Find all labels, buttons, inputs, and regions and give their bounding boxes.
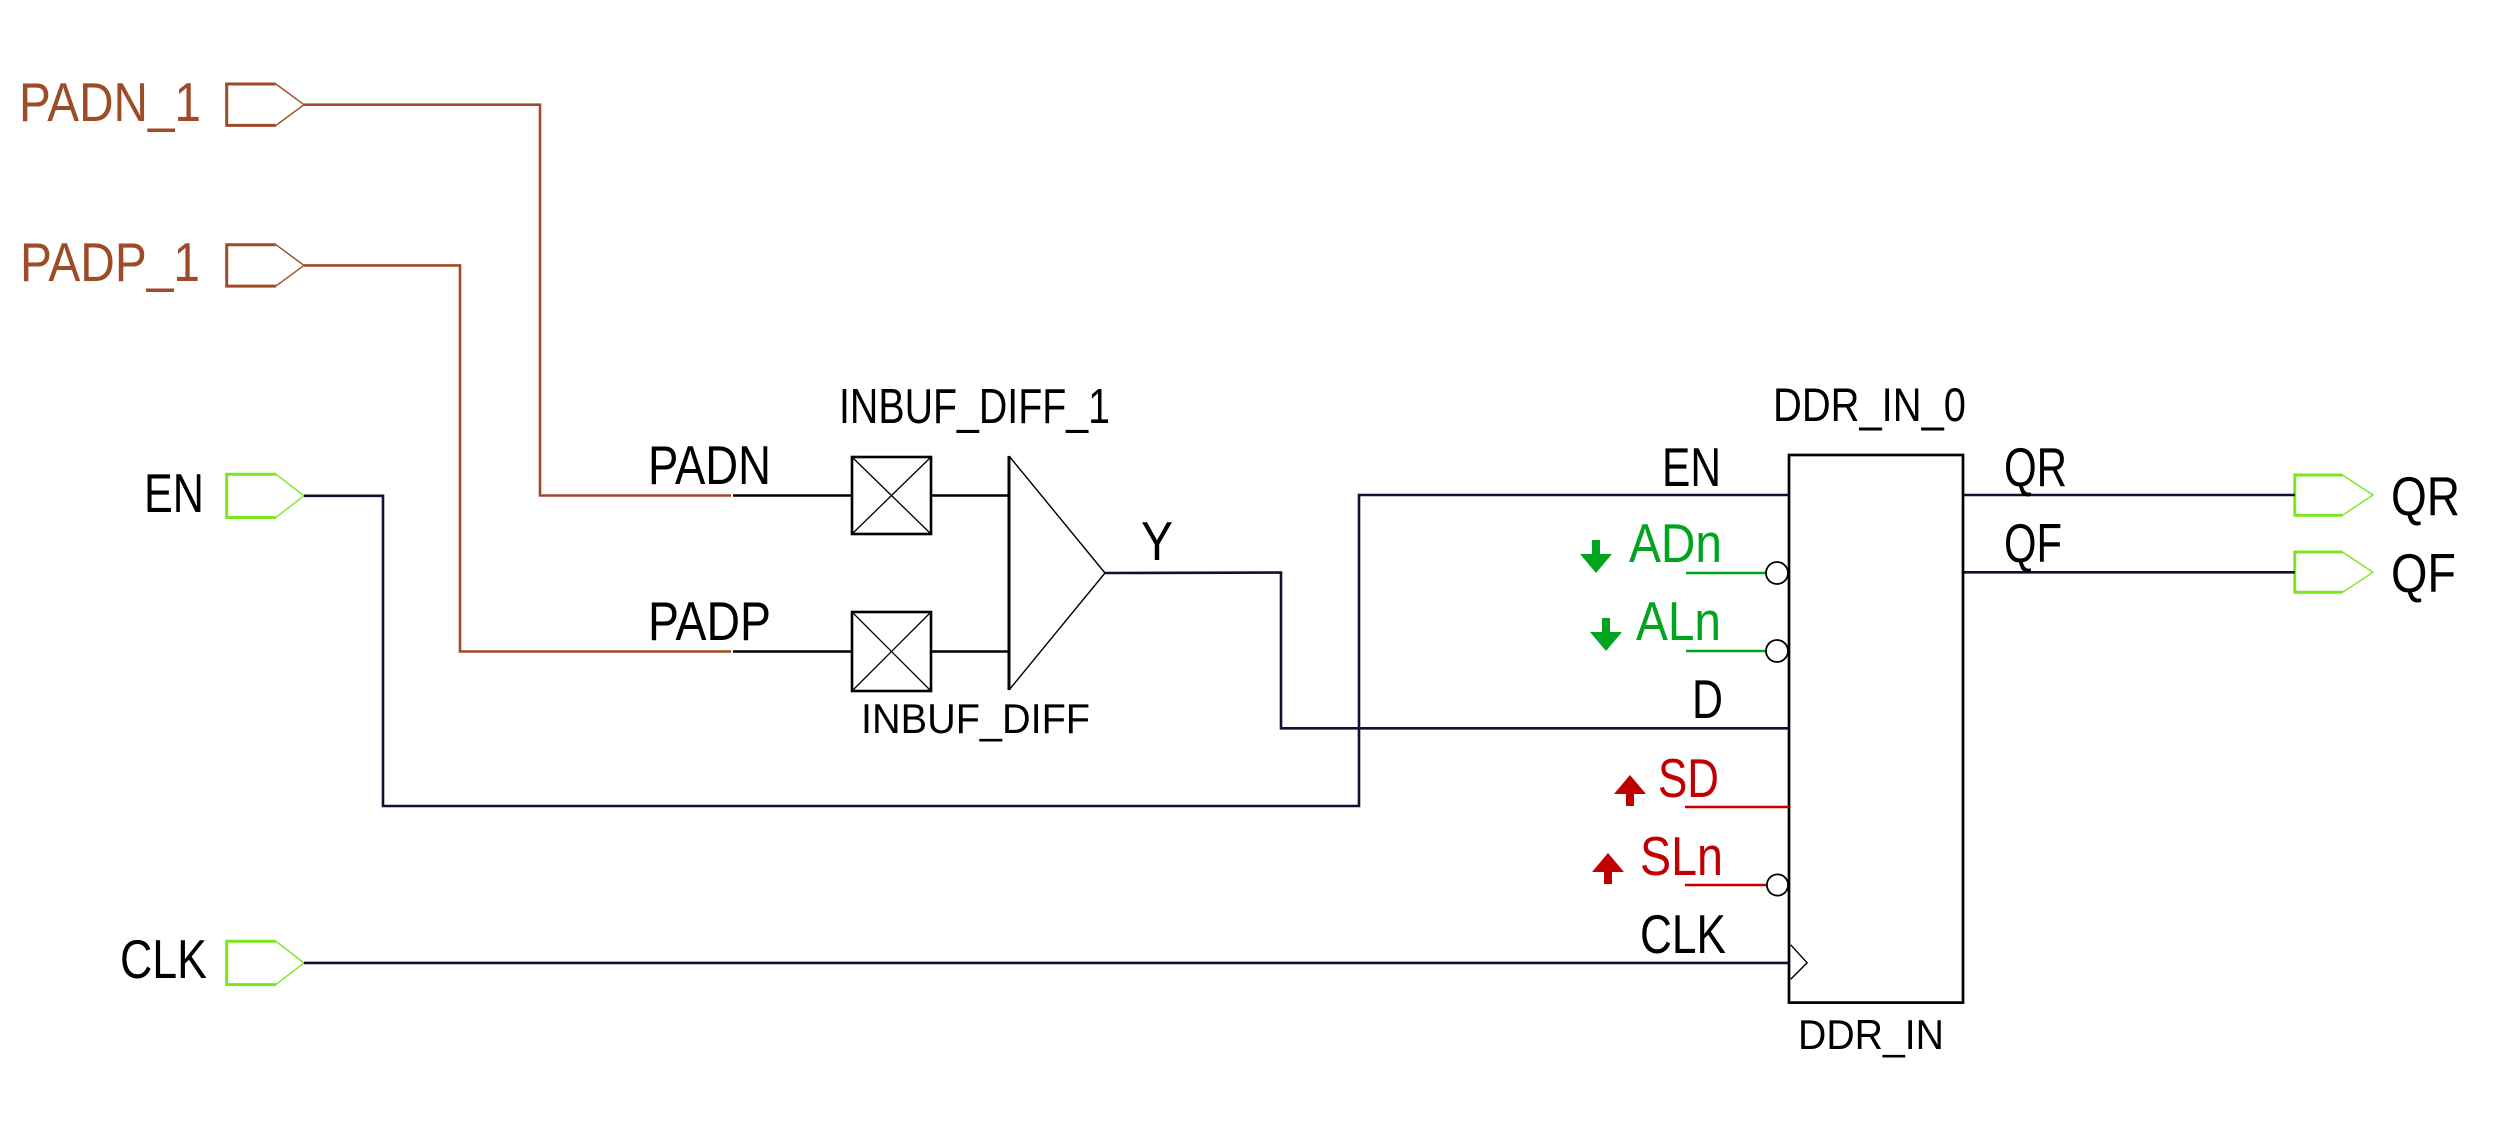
svg-text:PADP: PADP <box>648 590 771 652</box>
pin CLK clock caret <box>1791 945 1807 979</box>
svg-text:QF: QF <box>2391 542 2456 604</box>
svg-text:QF: QF <box>2004 512 2062 574</box>
wire net PADN_1 (brown) <box>304 105 731 496</box>
svg-text:D: D <box>1692 668 1723 730</box>
svg-text:CLK: CLK <box>1640 903 1726 965</box>
svg-text:PADN_1: PADN_1 <box>19 71 201 133</box>
svg-text:SD: SD <box>1658 747 1719 809</box>
arrow up SD <box>1614 775 1646 806</box>
pin stub PADN (black) <box>733 494 852 497</box>
svg-text:DDR_IN: DDR_IN <box>1798 1011 1944 1058</box>
arrow up SLn <box>1592 853 1624 884</box>
wire net EN (navy) <box>304 495 1789 806</box>
port CLK <box>227 941 304 984</box>
pin ALn bubble <box>1766 640 1788 662</box>
port QR <box>2295 475 2373 515</box>
port QF <box>2295 552 2373 592</box>
svg-text:QR: QR <box>2004 436 2067 498</box>
svg-text:DDR_IN_0: DDR_IN_0 <box>1773 378 1966 431</box>
svg-text:CLK: CLK <box>120 928 207 990</box>
svg-text:QR: QR <box>2391 465 2460 527</box>
svg-text:PADN: PADN <box>648 434 771 496</box>
svg-text:INBUF_DIFF: INBUF_DIFF <box>861 695 1090 742</box>
pin ADn bubble <box>1766 562 1788 584</box>
arrow down ALn <box>1590 618 1622 651</box>
svg-text:EN: EN <box>1662 436 1721 498</box>
pin SD wire (red) <box>1685 806 1789 809</box>
pin ADn wire (green) <box>1686 572 1766 575</box>
pin SLn wire (red) <box>1685 884 1767 887</box>
svg-text:EN: EN <box>144 462 204 524</box>
arrow down ADn <box>1580 540 1612 573</box>
pin SLn bubble <box>1767 874 1788 895</box>
wire net QF (navy) <box>1963 571 2295 574</box>
svg-text:INBUF_DIFF_1: INBUF_DIFF_1 <box>839 380 1110 434</box>
wire net CLK (navy) <box>304 962 1789 965</box>
svg-text:ALn: ALn <box>1636 590 1721 652</box>
svg-text:PADP_1: PADP_1 <box>20 231 200 293</box>
component INBUF_DIFF_1 buffer triangle <box>1009 456 1105 690</box>
svg-text:ADn: ADn <box>1629 512 1722 574</box>
svg-text:SLn: SLn <box>1640 825 1723 887</box>
wire pad to buffer top <box>931 494 1009 497</box>
port EN <box>227 474 304 517</box>
pin stub PADP (black) <box>733 650 852 653</box>
port PADP_1 <box>227 245 304 286</box>
pin ALn wire (green) <box>1686 650 1766 653</box>
wire net QR (navy) <box>1963 494 2295 497</box>
wire net Y to D (navy) <box>1105 573 1789 729</box>
svg-text:Y: Y <box>1141 510 1173 572</box>
component INBUF_DIFF_1 pad symbol top (X-box) <box>852 457 931 534</box>
wire net PADP_1 (brown) <box>304 265 731 651</box>
component DDR_IN_0 body <box>1789 455 1963 1003</box>
component INBUF_DIFF_1 pad symbol bottom (X-box) <box>852 612 931 691</box>
wire pad to buffer bottom <box>931 650 1009 653</box>
port PADN_1 <box>227 84 304 125</box>
